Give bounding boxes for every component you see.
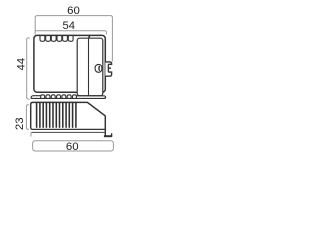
cover notch tick [88, 35, 90, 38]
cover divider [88, 38, 90, 95]
svg-text:23: 23 [14, 117, 26, 130]
vent slots on top edge [40, 36, 73, 41]
plate left edge [30, 132, 32, 136]
svg-text:54: 54 [62, 20, 74, 32]
terminal cover [77, 38, 103, 95]
screw hole [95, 64, 102, 72]
front view box bottom edge [31, 127, 106, 129]
mounting clip right [105, 62, 111, 76]
front view lid strip top outline with bumps [31, 95, 106, 99]
svg-text:44: 44 [16, 58, 28, 70]
svg-text:60: 60 [66, 141, 79, 153]
ribs [37, 103, 76, 127]
dimension 44 bracket [27, 38, 30, 99]
front view lid strip baseline [31, 97, 106, 99]
top view body outline [34, 35, 105, 92]
front view ribbed box outline [31, 102, 106, 136]
base plate line [32, 131, 105, 133]
dimension 54 bracket [35, 31, 106, 35]
dimension 60 top bracket [35, 16, 112, 62]
dimension box 60 bottom [33, 141, 114, 151]
dimension 23 bracket [26, 105, 29, 130]
svg-text:60: 60 [67, 5, 80, 17]
foot bar [104, 135, 112, 137]
